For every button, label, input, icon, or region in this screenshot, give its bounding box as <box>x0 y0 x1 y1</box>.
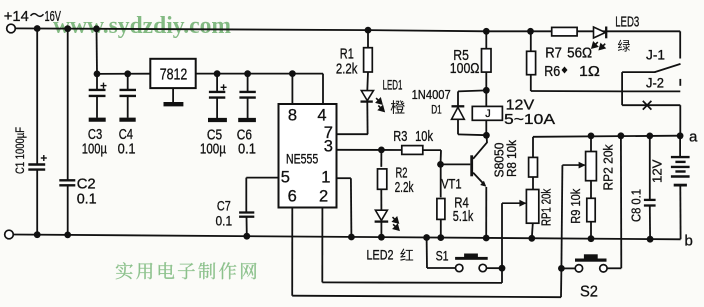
wire RP2 wiper down <box>561 165 562 268</box>
svg-text:C1 1000µF: C1 1000µF <box>13 127 27 174</box>
wire top rail <box>15 28 680 31</box>
svg-text:C7: C7 <box>217 198 231 214</box>
svg-text:5~10A: 5~10A <box>504 111 555 128</box>
svg-text:J-1: J-1 <box>646 47 665 63</box>
svg-text:2.2k: 2.2k <box>395 180 415 196</box>
svg-text:J-2: J-2 <box>646 74 664 90</box>
svg-text:J: J <box>485 108 491 120</box>
capacitor C4 <box>127 74 129 90</box>
node a terminal <box>677 132 684 139</box>
junction dot R5 top <box>483 28 490 35</box>
svg-text:3: 3 <box>324 137 333 155</box>
resistor R8 <box>532 137 534 158</box>
LED D LED1 <box>366 72 369 91</box>
input terminal + <box>7 24 16 33</box>
svg-text:5.1k: 5.1k <box>453 209 474 225</box>
wire a rail <box>533 136 680 137</box>
junction dot C6 top <box>244 70 251 77</box>
label 橙 <box>391 100 405 114</box>
op-amp U1 NE555 box <box>279 104 337 208</box>
svg-text:2.2k: 2.2k <box>336 60 358 77</box>
svg-text:1Ω: 1Ω <box>579 64 600 80</box>
pushbutton S1 <box>456 264 463 271</box>
junction dot pin8 feed <box>289 70 296 77</box>
junction dot R9 bottom <box>588 235 595 242</box>
svg-text:C8 0.1: C8 0.1 <box>630 189 644 222</box>
junction dot D1 top node <box>483 87 490 94</box>
label 红 <box>400 249 413 261</box>
svg-text:0.1: 0.1 <box>118 141 136 157</box>
svg-text:VT1: VT1 <box>441 176 462 192</box>
svg-text:RP2 20k: RP2 20k <box>602 144 616 191</box>
watermark 实用电子制作网 <box>116 262 133 279</box>
svg-text:b: b <box>685 233 693 250</box>
transistor Q1 VT1 <box>470 155 473 176</box>
wire bottom rail <box>13 235 680 240</box>
svg-text:1: 1 <box>321 169 330 187</box>
resistor R5 <box>485 31 487 48</box>
junction dot R4 bottom <box>437 234 444 241</box>
junction dot pin1 bottom <box>348 234 355 241</box>
wire X line <box>622 104 680 106</box>
wire R3 to base node <box>440 150 443 164</box>
svg-text:R3: R3 <box>393 129 407 145</box>
svg-text:NE555: NE555 <box>286 150 318 166</box>
wire to pin 8 <box>291 74 293 104</box>
svg-text:S1: S1 <box>436 248 449 263</box>
junction dot R2 branch <box>378 147 385 154</box>
svg-text:+14: +14 <box>4 8 29 25</box>
wire pin 7 <box>337 133 368 135</box>
svg-text:16V: 16V <box>45 8 62 25</box>
svg-text:R8 10k: R8 10k <box>505 139 519 177</box>
relay coil J <box>485 90 487 106</box>
svg-text:D1: D1 <box>431 105 442 117</box>
junction dot RP2 top <box>588 133 595 140</box>
potentiometer RP2 <box>590 136 592 152</box>
capacitor C5 <box>216 74 218 92</box>
junction dot RP1 bottom <box>528 235 535 242</box>
wire pin 2 to S1 <box>321 208 323 283</box>
wire pin 1 <box>337 177 351 179</box>
junction dot C2 top <box>64 25 71 32</box>
svg-text:100µ: 100µ <box>200 141 227 157</box>
relay contact J-1 <box>655 64 681 72</box>
wire pin 6 to S2 <box>291 208 293 296</box>
LED D LED2 <box>380 189 382 210</box>
junction dot emitter bottom <box>483 235 490 242</box>
svg-text:100µ: 100µ <box>82 141 108 157</box>
svg-text:4: 4 <box>317 106 326 124</box>
regulator 7812 <box>150 59 195 88</box>
resistor R6 <box>530 31 532 51</box>
resistor R2 <box>380 150 382 167</box>
pushbutton S2 <box>575 265 582 272</box>
junction dot C2 bottom <box>64 232 71 239</box>
svg-text:56Ω: 56Ω <box>567 45 592 61</box>
LED3 emission arrows <box>592 42 598 48</box>
capacitor C7 <box>239 211 254 213</box>
label 绿 <box>618 40 630 52</box>
output terminal - <box>5 230 14 239</box>
svg-text:www.sydzdiy.com: www.sydzdiy.com <box>53 13 231 39</box>
junction dot C4 top <box>124 70 131 77</box>
svg-text:S2: S2 <box>580 283 598 300</box>
wire RP1 wiper down <box>501 203 503 283</box>
junction dot S2 right top <box>618 132 625 139</box>
resistor R7 <box>552 27 577 36</box>
svg-text:6: 6 <box>288 187 297 205</box>
svg-text:0.1: 0.1 <box>77 190 97 207</box>
junction dot C5 top <box>214 70 221 77</box>
node collector junction <box>483 132 490 139</box>
wire base <box>441 163 471 165</box>
junction dot LED2 bottom <box>378 234 385 241</box>
potentiometer RP1 <box>532 177 534 190</box>
capacitor C1 <box>36 29 38 165</box>
svg-text:1N4007: 1N4007 <box>412 88 451 102</box>
junction dot R6 top <box>527 28 534 35</box>
resistor R9 <box>590 181 592 199</box>
junction dot top rail 7812 branch <box>93 25 100 32</box>
svg-text:10k: 10k <box>415 129 433 145</box>
wire pin 3 <box>337 149 403 151</box>
relay contact J-2 stub <box>679 79 681 86</box>
svg-text:RP1 20k: RP1 20k <box>540 188 554 226</box>
resistor R1 <box>367 30 369 48</box>
svg-text:8: 8 <box>288 106 297 124</box>
resistor R4 <box>440 164 442 197</box>
svg-text:12V: 12V <box>650 159 665 183</box>
capacitor C2 <box>67 29 69 181</box>
ground 7812 <box>172 88 174 102</box>
wire J common <box>621 72 623 105</box>
svg-text:R6: R6 <box>544 64 560 80</box>
junction dot C8 top <box>646 133 653 140</box>
svg-text:a: a <box>689 129 698 146</box>
svg-text:2: 2 <box>319 187 328 205</box>
junction dot C8 bottom <box>647 236 654 243</box>
capacitor C8 <box>649 136 651 200</box>
svg-text:R2: R2 <box>396 165 408 181</box>
svg-text:7812: 7812 <box>160 67 188 84</box>
junction dot C3 node <box>94 71 101 78</box>
svg-text:5: 5 <box>281 169 290 187</box>
capacitor C6 <box>247 74 249 92</box>
wire from top rail down to 7812 line <box>96 29 99 74</box>
junction dot C7 bottom <box>243 233 250 240</box>
wire pin 5 <box>246 177 278 179</box>
resistor R3 <box>402 146 423 155</box>
junction dot C1 top <box>34 25 41 32</box>
svg-text:LED3: LED3 <box>615 14 639 30</box>
svg-text:LED1: LED1 <box>383 77 403 92</box>
X mark <box>643 101 652 110</box>
wire top-right corner down to J-1 contact <box>679 31 681 58</box>
junction dot S1 left top <box>423 234 430 241</box>
svg-text:100Ω: 100Ω <box>450 60 480 77</box>
junction dot S2 left node <box>558 265 565 272</box>
LED D LED3 <box>594 27 606 38</box>
capacitor C3 <box>96 74 98 90</box>
diode D1 <box>458 90 486 91</box>
svg-text:R9 10k: R9 10k <box>569 188 583 224</box>
wire 7812 output <box>196 73 323 75</box>
battery 12V <box>679 136 681 157</box>
svg-text:0.1: 0.1 <box>238 141 256 157</box>
node base junction <box>437 161 444 168</box>
junction dot S1 right node <box>499 265 506 272</box>
LED1 emission arrows <box>376 98 382 104</box>
svg-text:0.1: 0.1 <box>216 213 233 229</box>
svg-text:LED2: LED2 <box>367 247 394 262</box>
svg-text:R7: R7 <box>545 45 562 61</box>
LED2 emission arrows <box>393 217 399 223</box>
junction dot R1 top <box>365 27 372 34</box>
junction dot C1 bottom <box>34 231 41 238</box>
